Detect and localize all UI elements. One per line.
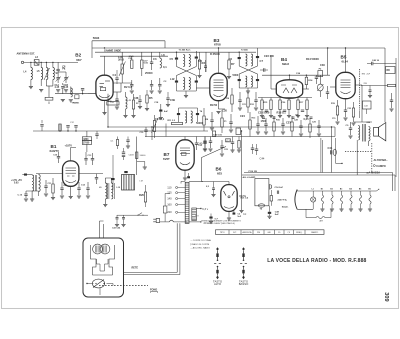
wire branch gnd xyxy=(137,161,145,163)
wire top B+ bus xyxy=(92,47,385,49)
filament winding xyxy=(192,208,197,221)
svg-text:C6: C6 xyxy=(199,59,203,63)
wire B4 low bus xyxy=(258,97,312,99)
svg-text:T1 465 Kc/s: T1 465 Kc/s xyxy=(179,49,192,52)
svg-text:POS 3W: POS 3W xyxy=(249,171,258,173)
cap C33 xyxy=(158,84,161,86)
cap n4 xyxy=(229,121,232,123)
svg-text:1 M: 1 M xyxy=(139,181,143,183)
svg-text:TRIMM.: TRIMM. xyxy=(72,102,80,104)
cap n2 xyxy=(210,119,213,121)
tube B7 xyxy=(176,140,194,170)
heater B4 xyxy=(350,191,352,195)
IFT2 bot coil b xyxy=(251,76,252,87)
table divider 7 xyxy=(293,230,295,235)
speaker cone xyxy=(379,123,386,141)
resistor n3 xyxy=(221,118,223,127)
wire v113 xyxy=(112,155,114,190)
svg-text:6,3 v: 6,3 v xyxy=(202,207,208,211)
wire C41 L xyxy=(335,138,337,163)
svg-text:RETE: RETE xyxy=(239,194,246,198)
wire IFT1 to B3 xyxy=(196,87,210,89)
svg-text:CAMPO: CAMPO xyxy=(376,164,385,168)
wire IFT1 down xyxy=(185,91,187,95)
tube B1 xyxy=(63,161,79,186)
cap B6 k xyxy=(233,213,236,215)
svg-text:6L84: 6L84 xyxy=(342,59,349,63)
wire diag to B6 xyxy=(202,147,227,182)
coil L3 series box xyxy=(34,60,39,66)
cap grid1 xyxy=(62,88,64,94)
wire L7 low xyxy=(52,80,54,87)
svg-text:C30: C30 xyxy=(320,63,325,67)
wire mid bus3 xyxy=(145,136,335,138)
svg-text:220: 220 xyxy=(167,210,172,214)
wire B4 right xyxy=(303,88,309,90)
box L13 xyxy=(226,139,231,142)
svg-text:R7: R7 xyxy=(231,62,235,66)
cap n6 xyxy=(256,123,259,125)
label CAMPO xyxy=(373,165,375,167)
ground C1A xyxy=(56,89,60,91)
svg-text:LA VOCE DELLA RADIO - MOD. R.F: LA VOCE DELLA RADIO - MOD. R.F.888 xyxy=(267,258,366,264)
coil midB xyxy=(126,97,128,109)
wire R1 xyxy=(121,52,123,64)
pot leads xyxy=(99,288,101,295)
cap bl3 xyxy=(60,187,63,189)
wire B3 top xyxy=(218,48,220,73)
ground B3 xyxy=(216,111,220,113)
svg-text:220V P.A.: 220V P.A. xyxy=(278,199,288,202)
cap C41 oval xyxy=(333,149,336,155)
cap n9 xyxy=(281,123,284,125)
svg-text:6K7: 6K7 xyxy=(76,58,82,62)
coil hatch xyxy=(34,175,36,191)
ground belowB4 1 xyxy=(269,115,273,117)
coil ch xyxy=(160,58,162,68)
tube B2 anode box xyxy=(100,88,105,91)
wire mains h pair b xyxy=(124,274,180,276)
cap avc5 xyxy=(96,131,98,134)
heater B3 xyxy=(341,191,343,195)
svg-text:C40 16: C40 16 xyxy=(372,59,380,62)
ground B6 xyxy=(227,217,231,219)
heater end terminal xyxy=(377,190,379,192)
junction blob xyxy=(24,174,27,176)
wire mains cord2 xyxy=(174,221,187,223)
cap C15 xyxy=(95,177,98,179)
wire left box edge xyxy=(91,48,93,58)
wire mains down pair a xyxy=(176,223,178,272)
coil L6b xyxy=(39,174,41,191)
wire drop L6 xyxy=(45,62,47,67)
wire third top bus xyxy=(100,55,168,57)
cap mains a xyxy=(116,217,119,219)
IFT1 bot coil a xyxy=(183,78,185,90)
ground C1B xyxy=(64,89,68,91)
IFT1 bot coil b xyxy=(189,78,191,90)
svg-text:309: 309 xyxy=(383,292,389,301)
coil L6 osc xyxy=(32,175,34,191)
resistor belowB4 2 xyxy=(279,100,281,110)
wire IFT3 top xyxy=(179,107,198,109)
resistor preIFT2 xyxy=(228,60,230,69)
wire drop L7 xyxy=(52,62,54,67)
tube B1 internals xyxy=(66,167,77,169)
cap C1A xyxy=(57,76,59,79)
svg-text:C14 2uF: C14 2uF xyxy=(275,186,284,189)
wire mid bus1 xyxy=(108,126,335,128)
resistor preB3 xyxy=(198,60,200,69)
wire B2 screen up xyxy=(104,56,106,75)
caps belowB4 row2 xyxy=(262,116,265,118)
wire B5 grid xyxy=(330,86,336,88)
resistor R3800 b xyxy=(82,141,91,145)
svg-text:6V6T: 6V6T xyxy=(163,157,170,161)
svg-text:50000: 50000 xyxy=(140,155,146,157)
cap C27 xyxy=(326,91,329,93)
resistor R6v xyxy=(136,152,138,159)
ground IFT1 xyxy=(184,95,188,97)
IFT1 cap right bot xyxy=(195,81,198,83)
cap C49 8uF xyxy=(210,214,212,217)
grounds B5 xyxy=(335,121,339,123)
svg-text:R20: R20 xyxy=(139,193,144,197)
osc coil b xyxy=(111,183,113,199)
cap bl4 xyxy=(77,187,80,189)
cap above B4 b xyxy=(315,76,318,78)
wire v331 xyxy=(331,127,333,173)
cap u1 xyxy=(115,77,118,79)
cap above B4 a xyxy=(263,68,265,71)
cap det1 xyxy=(238,99,241,101)
ground ant B xyxy=(39,89,43,91)
caps det right xyxy=(252,144,254,148)
wire L5 low xyxy=(40,80,42,87)
svg-text:RETE: RETE xyxy=(132,267,139,270)
wire v335 link xyxy=(334,127,336,137)
tube B7 internals xyxy=(180,147,190,149)
dotted field v xyxy=(371,143,373,172)
wire above B4 xyxy=(262,74,330,76)
wire heater bottom xyxy=(297,208,313,210)
wire B1 plate xyxy=(79,173,103,175)
oval T6 xyxy=(258,204,264,207)
resistor belowB4 4 xyxy=(297,100,299,110)
resistor det1 xyxy=(231,95,233,104)
cap C14 power xyxy=(276,191,278,194)
cap C32 xyxy=(150,84,153,86)
tube B2 grid lines xyxy=(100,83,105,85)
svg-text:ALTO: ALTO xyxy=(214,282,222,286)
ground C32 xyxy=(150,90,154,92)
resistor n1 xyxy=(203,116,205,125)
svg-text:L1: L1 xyxy=(312,188,314,190)
IFT1 cap left bot xyxy=(175,81,178,83)
wire B5 plate xyxy=(355,84,362,86)
resistor R3800 a xyxy=(82,137,91,141)
wire left col xyxy=(22,174,32,176)
resistor n12 xyxy=(309,124,311,132)
antenna terminal xyxy=(21,61,23,63)
wire L6 down xyxy=(31,191,33,196)
cap C22 xyxy=(195,142,198,144)
wire osc top xyxy=(104,178,106,183)
ground C48 xyxy=(267,215,271,217)
trimmer box xyxy=(75,95,79,99)
resistor n5 xyxy=(249,120,251,129)
wire box link xyxy=(359,111,361,119)
svg-text:0,25: 0,25 xyxy=(304,117,310,121)
ground C33 xyxy=(158,90,162,92)
svg-text:GR.: GR. xyxy=(267,232,271,234)
IFT1 cross wires xyxy=(177,67,197,76)
svg-text:B.T.: B.T. xyxy=(233,232,237,234)
osc hatch xyxy=(107,183,109,199)
cap C16 xyxy=(57,156,60,158)
svg-text:ALTOPARL.: ALTOPARL. xyxy=(374,158,388,162)
resistor belowB4 1 xyxy=(270,100,272,110)
cap grid2 xyxy=(82,90,84,94)
svg-text:4-45: 4-45 xyxy=(55,86,60,89)
IFT3 caps xyxy=(177,113,180,115)
svg-text:→ CONTR. DI COMA: → CONTR. DI COMA xyxy=(190,239,211,242)
svg-text:C24: C24 xyxy=(240,114,245,118)
svg-text:ANTENNA EST.: ANTENNA EST. xyxy=(17,51,36,55)
wire power top1 xyxy=(244,172,393,174)
wire B4 top xyxy=(289,75,291,80)
wire R3800 xyxy=(86,131,88,137)
table divider 8 xyxy=(304,230,306,235)
IFT1 top coil a xyxy=(183,55,185,67)
cap right edge xyxy=(390,99,393,101)
cap C18 big xyxy=(159,110,162,112)
lamp L1 xyxy=(311,197,316,202)
svg-text:25000: 25000 xyxy=(145,71,153,75)
dashed FONO line xyxy=(99,285,148,287)
wire left power v xyxy=(241,175,243,211)
grounds mid xyxy=(123,115,127,117)
ground IFT2 xyxy=(246,90,250,92)
svg-text:L8: L8 xyxy=(162,53,166,57)
resistor above B4 xyxy=(305,77,307,84)
wire B1 bottom xyxy=(70,186,72,196)
grid caps B1 xyxy=(84,158,87,160)
svg-text:6BL8: 6BL8 xyxy=(282,62,289,66)
coil L7 xyxy=(53,68,55,80)
cap det2 xyxy=(254,99,257,101)
resistor R2 xyxy=(141,60,143,68)
svg-text:B4: B4 xyxy=(349,187,351,190)
svg-text:160: 160 xyxy=(167,202,172,206)
svg-text:5693: 5693 xyxy=(93,36,100,40)
svg-text:RD: RD xyxy=(387,70,391,72)
resistor det mid xyxy=(238,141,240,149)
wire B2 in xyxy=(88,93,96,95)
cap bl1 xyxy=(44,185,47,187)
svg-text:C6: C6 xyxy=(229,57,233,61)
svg-text:RM: RM xyxy=(362,74,365,76)
box right top xyxy=(386,67,396,74)
svg-text:C21 0,1: C21 0,1 xyxy=(155,117,165,121)
speaker frame xyxy=(374,127,379,136)
socket key outline xyxy=(91,245,97,275)
svg-text:4 V: 4 V xyxy=(320,220,324,223)
svg-text:C.10: C.10 xyxy=(18,194,23,196)
resistor B5k2 xyxy=(352,108,354,117)
box C43r xyxy=(363,101,372,109)
tube B4 internals xyxy=(283,88,289,93)
svg-text:FREQ.: FREQ. xyxy=(296,232,302,234)
transformer T3 sec xyxy=(369,127,370,141)
cap C48 xyxy=(268,212,271,214)
svg-text:B1: B1 xyxy=(321,188,323,190)
svg-text:CAMPO: CAMPO xyxy=(311,231,319,234)
svg-text:T2 465: T2 465 xyxy=(241,48,249,51)
svg-text:(+): (+) xyxy=(244,214,247,216)
tube B6 eye xyxy=(224,191,227,196)
cap n11 xyxy=(299,125,302,127)
wire R11 xyxy=(165,124,167,137)
resistor n8 xyxy=(273,122,275,131)
node ant 4 xyxy=(52,62,53,63)
svg-text:C25 5000: C25 5000 xyxy=(258,111,270,115)
svg-text:+187V: +187V xyxy=(65,143,73,147)
wire B3 bottom xyxy=(218,101,220,109)
svg-text:8uF: 8uF xyxy=(275,214,280,216)
tube B4 xyxy=(276,80,302,98)
resistor R20 xyxy=(144,192,146,202)
tone column B xyxy=(242,247,245,251)
cap C3 xyxy=(151,52,153,62)
cap OT xyxy=(349,127,352,129)
wire rbus 85 xyxy=(361,85,388,87)
wire power top2 xyxy=(242,174,395,176)
tube B5 xyxy=(336,72,355,98)
svg-text:50000: 50000 xyxy=(196,121,204,125)
ground belowB4 2 xyxy=(278,115,282,117)
svg-text:R5: R5 xyxy=(149,96,153,100)
cap vb xyxy=(127,137,129,141)
fono bracket xyxy=(151,292,158,293)
ground L6 xyxy=(30,198,34,200)
caps right of B7 xyxy=(203,140,206,142)
resistor P2 tone xyxy=(153,121,155,132)
IFT1 top coil b xyxy=(189,55,191,67)
wire L6 low xyxy=(45,80,47,87)
svg-text:3/0.5: 3/0.5 xyxy=(129,56,135,58)
IFT2 cap left xyxy=(238,57,241,59)
cap preB3 xyxy=(204,65,207,67)
svg-text:1500: 1500 xyxy=(261,119,267,123)
cap B5k xyxy=(344,109,347,111)
ground B7 xyxy=(183,177,187,179)
fuse box xyxy=(163,206,167,213)
svg-text:C27: C27 xyxy=(286,121,291,125)
wire mains bus xyxy=(117,214,148,216)
wire right link xyxy=(378,63,396,65)
wire IFT1 gnd xyxy=(177,90,197,92)
switch mains xyxy=(138,213,142,216)
pot P1 xyxy=(317,84,323,91)
wire bottom tap xyxy=(189,221,200,223)
RF box outline xyxy=(92,40,165,42)
resistor belowB4 0 xyxy=(261,100,263,110)
svg-text:C4: C4 xyxy=(113,73,117,77)
svg-text:B3: B3 xyxy=(340,188,342,190)
heater B6 xyxy=(369,191,371,195)
tube B5 internals xyxy=(341,79,351,81)
coil grid xyxy=(71,88,73,97)
socket circle b xyxy=(100,244,110,254)
cap C31 xyxy=(130,84,133,86)
cap avc1 xyxy=(41,126,43,131)
IFT2 cross xyxy=(239,66,257,74)
node ant 1 xyxy=(30,62,31,63)
svg-text:C39: C39 xyxy=(170,98,175,102)
cap C20 xyxy=(220,145,223,147)
svg-text:C3: C3 xyxy=(153,57,157,61)
wire mains down pair b xyxy=(179,223,181,274)
wire B2 cath down xyxy=(104,100,106,112)
socket inner xyxy=(97,259,109,271)
svg-text:R11 3.2: R11 3.2 xyxy=(168,120,176,122)
resistor R11 xyxy=(172,122,183,124)
svg-text:FONO: FONO xyxy=(150,288,157,291)
resistor n10 xyxy=(291,122,293,131)
IFT3 coil a xyxy=(185,111,187,123)
svg-text:SALD.: SALD. xyxy=(282,206,289,209)
wire v177 top xyxy=(176,223,178,226)
heater B1 xyxy=(321,191,323,195)
ground C31 xyxy=(130,90,134,92)
resistor bl2 xyxy=(52,184,54,193)
resistor B5k xyxy=(336,106,338,115)
cap n13 xyxy=(317,125,320,127)
cap det mid xyxy=(232,137,234,143)
resistor midC xyxy=(132,100,134,109)
ground ant A xyxy=(29,86,33,88)
osc coil a xyxy=(105,183,107,199)
svg-text:140: 140 xyxy=(167,196,172,200)
wire IFT2 base xyxy=(239,87,257,89)
tube B2 xyxy=(96,75,113,100)
wire B6 bottom xyxy=(228,211,230,217)
wire pot xyxy=(319,75,321,84)
ground belowB4 4 xyxy=(296,115,300,117)
svg-text:BASSO: BASSO xyxy=(239,282,249,286)
resistor right edge xyxy=(388,84,396,86)
cap C41B xyxy=(122,151,125,153)
cap C40 det xyxy=(204,137,206,142)
svg-text:C46 0.05: C46 0.05 xyxy=(213,133,223,136)
cap u4 xyxy=(166,97,169,99)
cap rs1 xyxy=(369,86,371,91)
svg-text:C23 100: C23 100 xyxy=(264,54,274,58)
coil L6 xyxy=(46,68,48,80)
switch S1 arrow xyxy=(44,68,50,80)
wire second top bus xyxy=(95,51,256,53)
svg-text:C41B: C41B xyxy=(129,154,135,156)
svg-text:ANODICA: ANODICA xyxy=(243,231,253,234)
tap top lead xyxy=(181,180,185,182)
wire drop L4 xyxy=(30,62,32,67)
svg-text:6E5: 6E5 xyxy=(217,171,222,175)
coil L4 xyxy=(31,68,33,80)
wire pot right xyxy=(107,283,114,285)
IFT1 cap right top xyxy=(195,57,198,59)
resistor P2 vol xyxy=(318,71,323,77)
